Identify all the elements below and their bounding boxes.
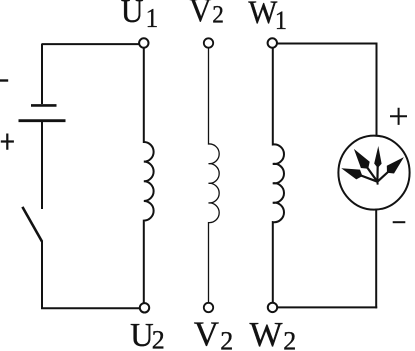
label W2 (250, 315, 283, 351)
svg-text:2: 2 (220, 326, 233, 351)
wire left vertical (down to battery top plate) (41, 44, 43, 105)
wire lamp bottom vertical (375, 209, 377, 309)
label + (battery positive) (1, 134, 14, 150)
lamp flash arrow up (stem) (376, 166, 379, 182)
label W1 (248, 0, 278, 30)
terminal V2 (bottom) (204, 303, 213, 312)
wire bottom-right horizontal (W2 to lamp) (277, 306, 377, 308)
svg-text:2: 2 (212, 1, 224, 29)
coil L2 (V winding) (209, 48, 220, 303)
svg-text:1: 1 (275, 7, 287, 35)
switch S1 blade (open) (22, 207, 42, 242)
label U2 (130, 316, 154, 351)
svg-text:V: V (194, 314, 219, 351)
wire top-right horizontal (W1 to lamp) (277, 43, 376, 45)
svg-text:W: W (248, 0, 278, 30)
lamp flash arrow left (head) (341, 168, 362, 179)
svg-text:U: U (130, 316, 154, 351)
terminal U1 (139, 38, 148, 47)
lamp flash arrow up-left (head) (354, 149, 370, 169)
svg-text:W: W (250, 315, 283, 351)
lamp flash arrow up-left (stem) (367, 167, 378, 182)
svg-text:U: U (121, 0, 144, 30)
terminal U2 (140, 303, 149, 312)
svg-text:1: 1 (146, 3, 159, 33)
lamp flash arrow up-right (head) (387, 157, 404, 173)
lamp flash arrow up (head) (374, 146, 381, 168)
lamp flash arrow up-right (stem) (377, 172, 388, 182)
battery B1 positive plate (long) (19, 119, 66, 122)
wire battery to switch (41, 122, 43, 209)
svg-text:2: 2 (152, 326, 165, 351)
coil L1 (U winding) (144, 48, 154, 303)
label V2 (top) (189, 0, 212, 29)
lamp flash arrow left (stem) (361, 176, 377, 182)
terminal W1 (268, 38, 277, 47)
svg-text:2: 2 (283, 327, 296, 351)
wire top-left horizontal (battery to U1) (42, 43, 139, 45)
label + (lamp positive) (390, 108, 407, 125)
svg-text:V: V (189, 0, 212, 29)
label - (battery negative) (0, 79, 8, 81)
wire right vertical down to lamp (376, 43, 378, 138)
terminal V1 (top, marked V2) (204, 38, 213, 47)
label U1 (121, 0, 144, 30)
coil L3 (W winding) (273, 48, 284, 303)
battery B1 negative plate (short) (31, 104, 57, 107)
wire switch to bottom corner (41, 241, 43, 308)
label V2 (bottom) (194, 314, 219, 351)
lamp DS1 circle (338, 136, 409, 210)
wire bottom-left horizontal (to U2) (41, 307, 140, 309)
label - (lamp negative) (393, 221, 406, 223)
terminal W2 (268, 303, 277, 312)
lamp flash tail below focus (376, 182, 378, 185)
